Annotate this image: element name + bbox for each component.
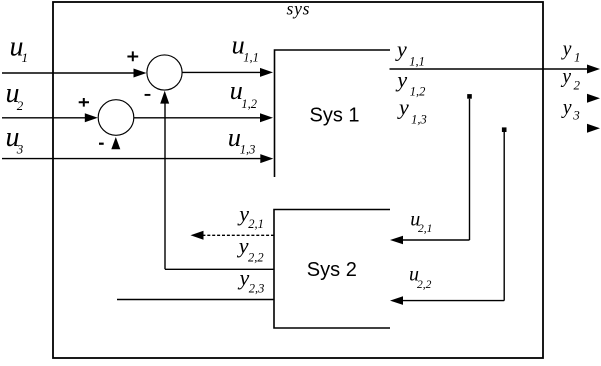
svg-text:1: 1	[574, 50, 581, 65]
svg-text:1,2: 1,2	[241, 97, 257, 111]
svg-text:1,3: 1,3	[411, 112, 427, 126]
svg-text:2: 2	[574, 77, 581, 92]
svg-text:2,1: 2,1	[418, 223, 432, 235]
svg-text:y: y	[237, 233, 249, 258]
svg-text:y: y	[561, 98, 572, 119]
svg-text:Sys 2: Sys 2	[307, 259, 357, 281]
svg-text:y: y	[238, 265, 250, 290]
svg-text:1,1: 1,1	[409, 54, 425, 68]
svg-text:y: y	[395, 37, 407, 62]
svg-text:3: 3	[572, 107, 580, 122]
svg-text:1,3: 1,3	[240, 143, 256, 157]
svg-text:1: 1	[22, 50, 29, 65]
svg-text:1,1: 1,1	[243, 51, 259, 65]
svg-text:y: y	[395, 67, 407, 92]
svg-text:y: y	[561, 39, 572, 60]
svg-text:1,2: 1,2	[410, 85, 426, 99]
svg-text:2,2: 2,2	[248, 250, 264, 264]
svg-text:y: y	[397, 94, 409, 119]
svg-text:sys: sys	[287, 0, 311, 18]
svg-text:2,2: 2,2	[417, 279, 432, 291]
svg-text:2: 2	[17, 98, 24, 113]
svg-text:2,3: 2,3	[249, 281, 265, 295]
svg-text:y: y	[560, 67, 571, 88]
svg-text:2,1: 2,1	[248, 217, 264, 231]
svg-text:Sys 1: Sys 1	[310, 104, 360, 126]
svg-text:3: 3	[16, 142, 24, 157]
